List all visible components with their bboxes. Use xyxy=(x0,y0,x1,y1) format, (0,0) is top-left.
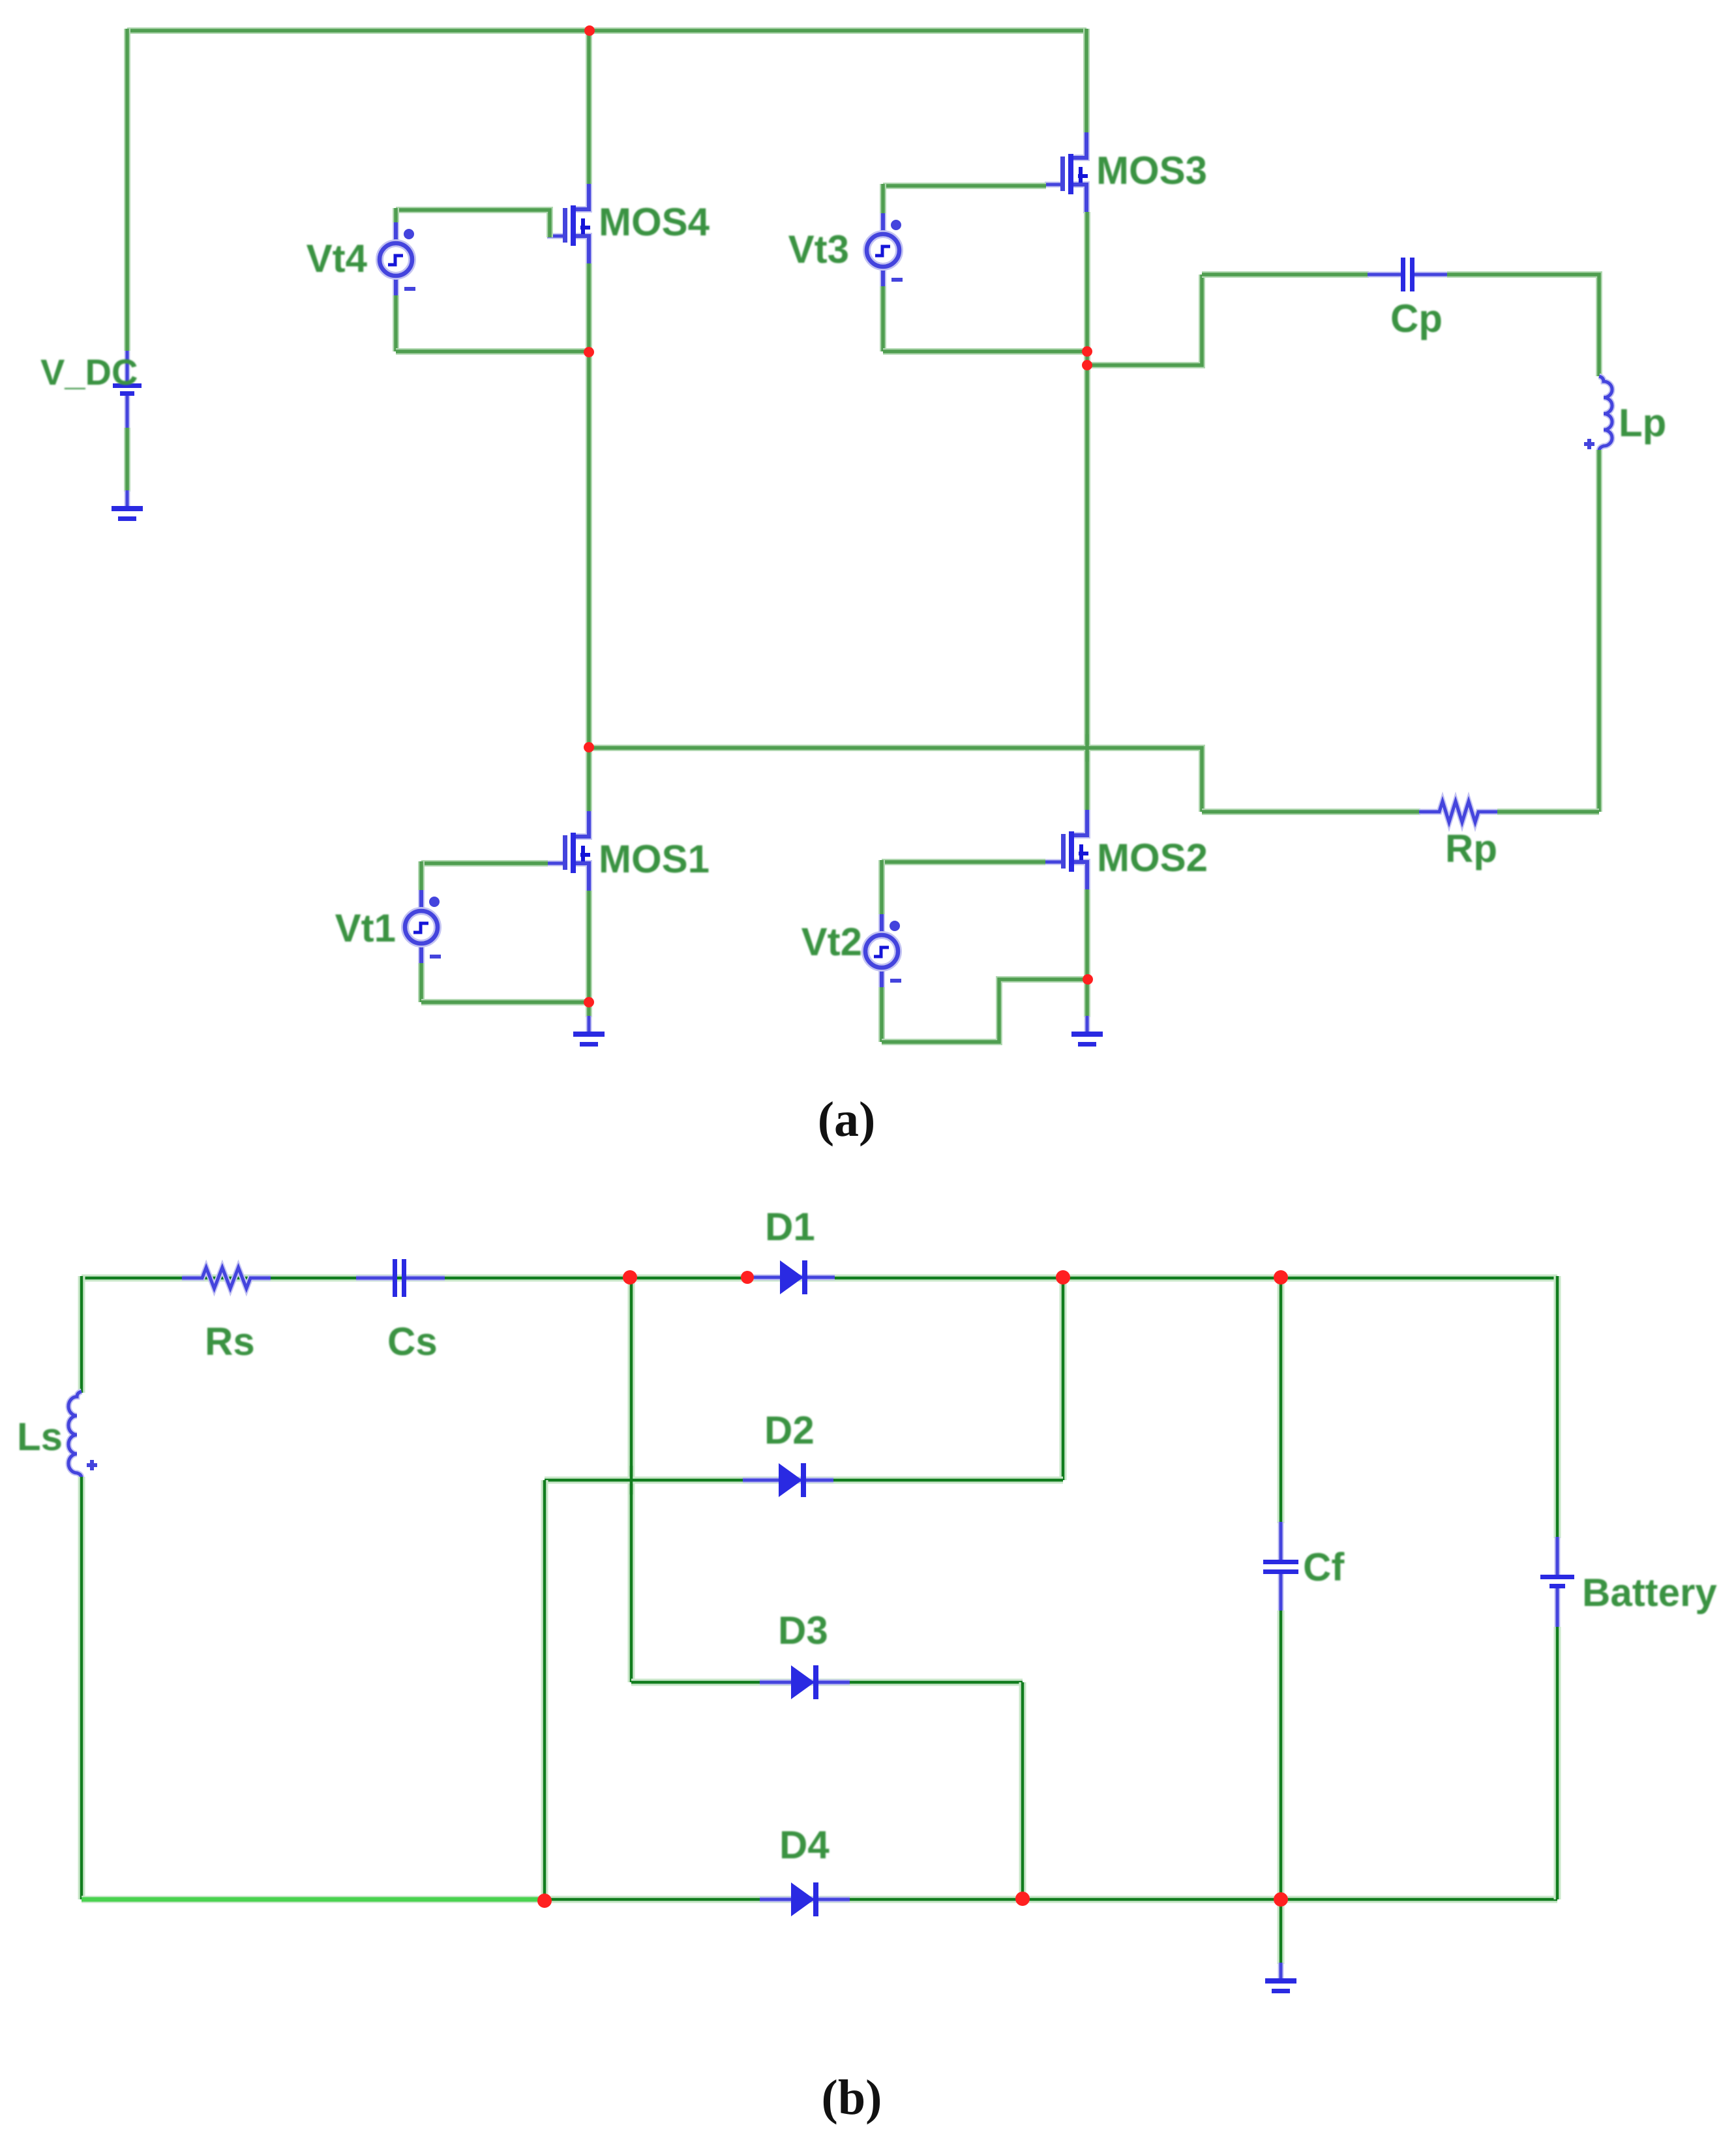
wire Vt4 lower lead xyxy=(393,295,399,351)
svg-text:Vt3: Vt3 xyxy=(788,228,849,271)
battery V_DC xyxy=(113,351,142,429)
ground MOS1 xyxy=(573,1016,605,1047)
wire V_DC to ground xyxy=(124,428,130,492)
svg-text:D4: D4 xyxy=(779,1823,830,1867)
node tank branch junction xyxy=(1082,360,1092,370)
wire Cp left lead wire xyxy=(1202,271,1369,278)
svg-text:D3: D3 xyxy=(778,1609,828,1652)
wire Rp right lead wire xyxy=(1497,809,1599,815)
transistor MOS4 xyxy=(547,184,590,265)
node MOS4 drain junction xyxy=(584,25,595,36)
wire Vt1 gate wire xyxy=(421,860,548,867)
node Cf bottom junction xyxy=(1274,1892,1288,1907)
wire V_DC left leg xyxy=(124,29,130,351)
diode D1 xyxy=(752,1260,835,1294)
voltage source Vt2 xyxy=(865,914,901,988)
svg-text:(a): (a) xyxy=(818,1092,876,1147)
wire bottom rail highlighted segment xyxy=(82,1897,545,1902)
node MOS1 source junction xyxy=(584,997,594,1007)
wire MOS4 source to MOS1 drain xyxy=(586,263,592,812)
wire ground stub xyxy=(1278,1899,1285,1964)
wire Cf leg upper xyxy=(1278,1278,1285,1523)
wire top rail xyxy=(127,27,1086,34)
wire Ls left leg upper xyxy=(78,1276,85,1393)
ground figure b xyxy=(1265,1963,1296,1993)
svg-text:Rs: Rs xyxy=(205,1320,255,1363)
wire D2 row xyxy=(545,1477,1063,1484)
inductor Ls xyxy=(68,1391,97,1478)
wire D2 anode down leg xyxy=(541,1480,548,1899)
wire AC node vertical xyxy=(628,1278,635,1682)
diode D4 xyxy=(760,1882,850,1916)
battery Battery xyxy=(1540,1537,1574,1628)
transistor MOS3 xyxy=(1045,132,1088,213)
svg-text:Vt1: Vt1 xyxy=(335,906,396,950)
svg-text:Rp: Rp xyxy=(1445,827,1497,870)
wire Vt4 upper lead xyxy=(393,208,399,224)
voltage source Vt3 xyxy=(867,213,903,288)
node D1 anode dot xyxy=(741,1271,754,1284)
svg-text:Ls: Ls xyxy=(17,1415,63,1459)
transistor MOS2 xyxy=(1045,810,1088,891)
node D1 cathode junction xyxy=(1056,1270,1070,1285)
svg-text:Vt2: Vt2 xyxy=(801,920,862,964)
wire D1 cathode down leg xyxy=(1060,1278,1067,1480)
svg-text:Battery: Battery xyxy=(1582,1571,1717,1614)
wire Ls left leg lower xyxy=(78,1477,85,1899)
wire MOS4 drain leg xyxy=(586,29,592,185)
svg-text:MOS2: MOS2 xyxy=(1097,836,1208,880)
wire Vt1 lower lead xyxy=(418,963,425,1002)
wire Lp to Rp corner xyxy=(1596,450,1602,812)
wire Vt3 return xyxy=(883,348,1087,355)
node Vt2 return junction xyxy=(1083,974,1093,985)
resistor Rs xyxy=(182,1268,271,1288)
wire Vt3 lower lead xyxy=(880,286,886,351)
svg-text:Cf: Cf xyxy=(1303,1545,1345,1589)
svg-text:(b): (b) xyxy=(822,2070,882,2125)
ground MOS2 xyxy=(1071,1016,1103,1047)
svg-text:Cs: Cs xyxy=(387,1320,438,1363)
wire Rp left lead wire xyxy=(1202,809,1420,815)
node A output junction xyxy=(584,742,594,752)
svg-text:D2: D2 xyxy=(764,1408,815,1452)
wire output node A to tank xyxy=(589,748,1202,812)
node AC top junction xyxy=(623,1270,637,1285)
wire MOS1 source stub xyxy=(586,891,592,1017)
wire AC node vertical crossing repaint xyxy=(630,1466,633,1494)
svg-text:MOS1: MOS1 xyxy=(599,837,710,881)
wire Vt2 return xyxy=(882,979,1087,1042)
wire Vt2 gate wire xyxy=(882,859,1045,865)
diode D2 xyxy=(743,1463,833,1497)
svg-text:Vt4: Vt4 xyxy=(307,237,368,280)
diode D3 xyxy=(760,1665,850,1699)
wire MOS3 drain leg xyxy=(1083,29,1090,134)
inductor Lp xyxy=(1584,376,1612,451)
wire top rail xyxy=(82,1275,1557,1282)
wire MOS2 source stub xyxy=(1084,889,1090,1017)
capacitor Cs xyxy=(356,1259,445,1297)
wire D3 cathode down leg xyxy=(1019,1682,1026,1899)
capacitor Cp xyxy=(1368,258,1447,291)
node Vt3 return junction xyxy=(1082,346,1092,357)
svg-text:Lp: Lp xyxy=(1619,401,1666,445)
svg-text:Cp: Cp xyxy=(1390,297,1443,340)
wire Vt3 upper lead xyxy=(880,184,886,215)
voltage source Vt1 xyxy=(405,890,441,964)
node MOS4 source junction xyxy=(584,347,594,357)
wire Vt1 upper lead xyxy=(418,861,425,891)
resistor Rp xyxy=(1419,801,1499,822)
svg-text:D1: D1 xyxy=(765,1205,815,1249)
wire Vt3 gate wire xyxy=(883,183,1046,189)
wire tank branch horizontal xyxy=(1087,275,1202,365)
node D2 anode bottom junction xyxy=(537,1894,552,1908)
svg-text:V_DC: V_DC xyxy=(40,351,138,393)
voltage source Vt4 xyxy=(380,222,415,297)
capacitor Cf xyxy=(1263,1522,1298,1612)
wire Vt2 upper lead xyxy=(878,860,885,915)
node D3 cathode bottom junction xyxy=(1015,1892,1030,1906)
wire Vt1 return xyxy=(421,999,589,1005)
node Cf top junction xyxy=(1274,1270,1288,1285)
svg-text:MOS4: MOS4 xyxy=(599,200,710,244)
wire Cf leg lower xyxy=(1278,1611,1285,1899)
wire MOS2 drain leg crossing repaint xyxy=(1085,734,1089,762)
wire D3 row xyxy=(631,1679,1023,1686)
ground V_DC xyxy=(112,490,143,521)
wire Vt4 gate loop top xyxy=(396,210,550,237)
wire Cp to Lp corner xyxy=(1447,275,1599,376)
transistor MOS1 xyxy=(547,811,590,892)
wire Vt4 return xyxy=(396,348,589,355)
svg-text:MOS3: MOS3 xyxy=(1096,149,1207,192)
wire Battery leg upper xyxy=(1554,1276,1561,1538)
wire bottom rail xyxy=(82,1896,1557,1903)
wire Battery leg lower xyxy=(1554,1627,1561,1899)
wire Vt2 lower lead xyxy=(878,987,885,1042)
wire MOS3 source to MOS2 drain xyxy=(1084,212,1090,811)
